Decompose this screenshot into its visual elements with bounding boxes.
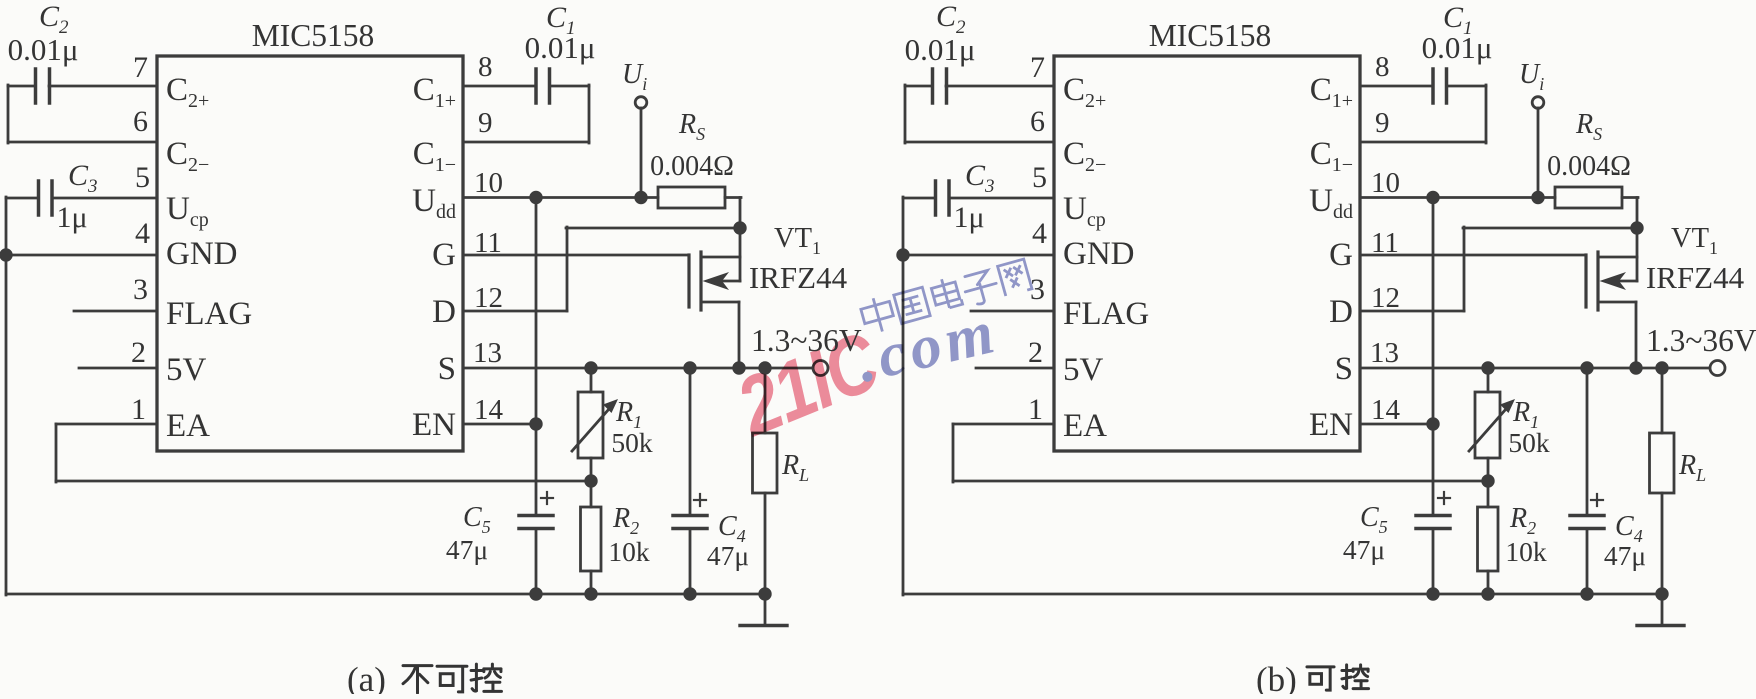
svg-text:1.3~36V: 1.3~36V [751,323,862,358]
svg-text:(a): (a) [347,660,386,694]
svg-text:1.3~36V: 1.3~36V [1646,323,1756,358]
svg-text:(b): (b) [1256,660,1297,694]
